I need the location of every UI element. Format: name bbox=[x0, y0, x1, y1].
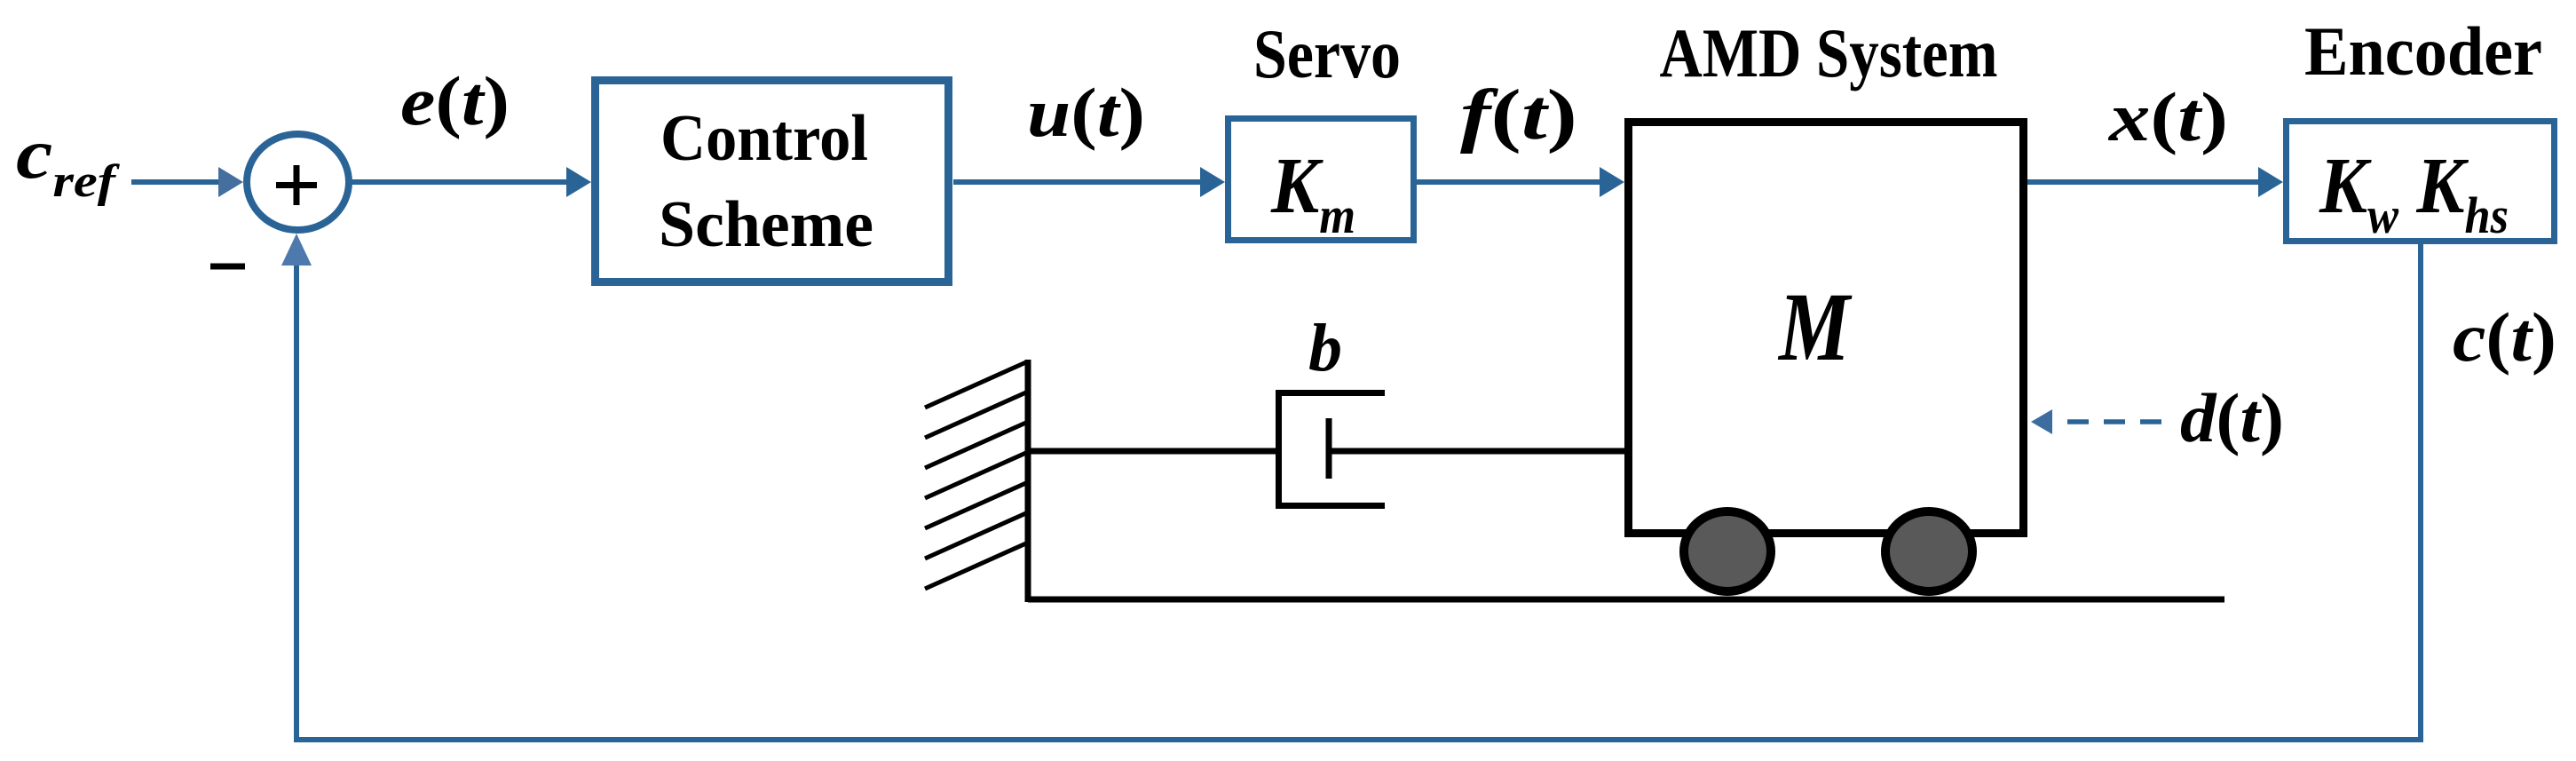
wire Km to AMD System bbox=[1417, 167, 1624, 197]
node c(t) label bbox=[2453, 298, 2556, 376]
node x(t) label bbox=[2108, 78, 2228, 155]
svg-text:Servo: Servo bbox=[1253, 15, 1401, 92]
wire Control Scheme to Km bbox=[953, 167, 1225, 197]
damper rod right to mass bbox=[1329, 448, 1624, 455]
damper label b bbox=[1308, 311, 1342, 385]
node f(t) label bbox=[1460, 76, 1577, 155]
svg-text:f(t): f(t) bbox=[1460, 76, 1577, 155]
svg-text:d(t): d(t) bbox=[2180, 379, 2284, 456]
damper piston bbox=[1326, 418, 1332, 479]
node c_ref input label bbox=[16, 115, 120, 207]
Servo label bbox=[1253, 15, 1401, 92]
mass M label bbox=[1777, 273, 1852, 381]
Control Scheme text bbox=[659, 102, 873, 261]
svg-text:cref: cref bbox=[16, 115, 120, 207]
Kw Khs text bbox=[2319, 142, 2509, 244]
damper B1 cylinder bbox=[1279, 393, 1386, 506]
wall fixed support vertical line bbox=[1025, 360, 1031, 602]
svg-text:e(t): e(t) bbox=[400, 62, 510, 139]
wheel left bbox=[1684, 511, 1771, 591]
wire feedback: encoder down bbox=[2418, 244, 2423, 742]
node e(t) label bbox=[400, 62, 510, 139]
svg-text:c(t): c(t) bbox=[2453, 298, 2556, 376]
Encoder label bbox=[2304, 12, 2542, 90]
svg-text:Encoder: Encoder bbox=[2304, 12, 2542, 90]
plus sign in summer bbox=[276, 165, 317, 205]
svg-text:AMD System: AMD System bbox=[1660, 14, 1998, 91]
block Control Scheme box bbox=[596, 81, 949, 282]
node u(t) label bbox=[1027, 74, 1145, 151]
AMD System label bbox=[1660, 14, 1998, 91]
ground line bbox=[1028, 597, 2224, 603]
summing junction U1 bbox=[247, 134, 349, 230]
svg-text:M: M bbox=[1777, 273, 1852, 381]
svg-text:b: b bbox=[1308, 311, 1342, 385]
wire feedback: bottom run bbox=[294, 737, 2423, 742]
svg-text:u(t): u(t) bbox=[1027, 74, 1145, 151]
damper rod left bbox=[1028, 448, 1276, 455]
block Encoder Kw Khs box bbox=[2287, 122, 2555, 242]
block servo Km box bbox=[1229, 119, 1414, 241]
wire summer to Control Scheme bbox=[352, 167, 591, 197]
wire c_ref to summer bbox=[131, 167, 243, 197]
svg-text:Scheme: Scheme bbox=[659, 188, 873, 261]
svg-text:Control: Control bbox=[660, 102, 868, 175]
minus sign at feedback input bbox=[210, 264, 245, 270]
Km text bbox=[1270, 142, 1355, 244]
node d(t) label bbox=[2180, 379, 2284, 456]
wire AMD System to Encoder bbox=[2027, 167, 2283, 197]
wheel right bbox=[1885, 511, 1972, 591]
block AMD System mass box bbox=[1629, 123, 2024, 534]
svg-text:x(t): x(t) bbox=[2108, 78, 2228, 155]
wire disturbance d(t) dashed arrow bbox=[2031, 409, 2162, 434]
wall hatching bbox=[925, 361, 1028, 589]
wire feedback: up to summer bbox=[281, 234, 312, 742]
